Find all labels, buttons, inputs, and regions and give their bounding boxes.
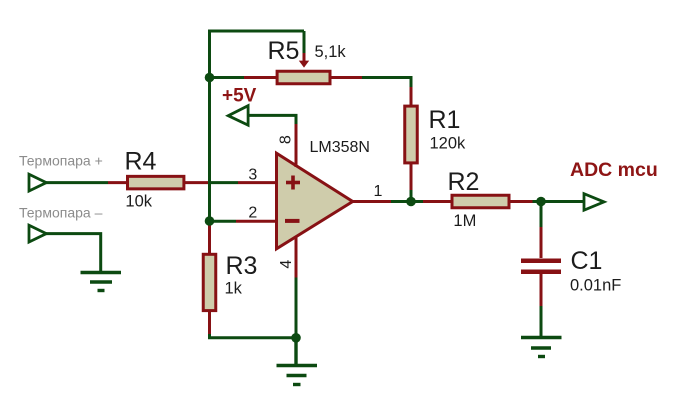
- capacitor C1: [521, 227, 561, 306]
- wire: R4 right lead to crossing: [184, 181, 211, 184]
- svg-text:R1: R1: [429, 106, 461, 134]
- ground (op-amp pin 4): [277, 338, 318, 385]
- wire: pin 2 from junction: [210, 220, 237, 223]
- svg-text:LM358N: LM358N: [310, 139, 370, 156]
- junction: R5 left node: [205, 73, 215, 83]
- wire: R3 bottom to ground net: [210, 334, 297, 338]
- wire: R5 right to R1 top: [362, 78, 411, 88]
- wire: pin 4 to ground node: [295, 278, 298, 338]
- svg-text:Термопара –: Термопара –: [19, 204, 103, 220]
- wire: R4 input wire (terminal to R4): [45, 181, 108, 184]
- wire: R5 left lead (green part): [210, 76, 245, 79]
- wire: R2 to ADC node and terminal: [533, 200, 585, 203]
- wire: +5V arrow to pin 8: [249, 115, 297, 124]
- op-amp U1 LM358N: [277, 153, 353, 249]
- svg-text:ADC mcu: ADC mcu: [570, 159, 658, 181]
- resistor R2: [423, 195, 533, 208]
- svg-text:1k: 1k: [225, 280, 243, 298]
- svg-text:R5: R5: [268, 37, 300, 65]
- pin 1 output stub: [353, 200, 391, 203]
- pin 2 stub: [236, 220, 277, 223]
- svg-text:1M: 1M: [453, 212, 476, 230]
- wire: top feedback wire and left vertical net: [210, 31, 305, 220]
- svg-text:1: 1: [374, 183, 383, 200]
- svg-text:R3: R3: [226, 252, 258, 280]
- svg-text:5,1k: 5,1k: [315, 43, 347, 61]
- svg-text:2: 2: [248, 205, 257, 222]
- junction: ground node: [291, 333, 301, 343]
- junction: R3/pin2 node: [205, 216, 215, 226]
- terminal: Термопара - input: [29, 225, 46, 242]
- svg-text:3: 3: [248, 167, 257, 184]
- wire: C1 bottom to ground: [540, 306, 543, 337]
- terminal: Термопара + input: [29, 174, 46, 191]
- resistor R1: [405, 87, 418, 190]
- power terminal +5V: [228, 106, 248, 126]
- wire: ADC node down to C1: [540, 202, 543, 228]
- svg-text:0.01nF: 0.01nF: [570, 276, 621, 294]
- svg-text:C1: C1: [571, 247, 603, 275]
- svg-text:8: 8: [278, 135, 295, 144]
- svg-text:4: 4: [278, 260, 295, 269]
- wire: Термопара - terminal to ground: [45, 234, 101, 272]
- resistor R4: [108, 176, 184, 189]
- ground (left input): [81, 273, 122, 291]
- svg-text:10k: 10k: [125, 193, 152, 211]
- svg-text:+5V: +5V: [222, 86, 257, 107]
- svg-text:Термопара +: Термопара +: [19, 153, 103, 169]
- junction: output node: [406, 197, 416, 207]
- wire: output node to R2: [391, 200, 423, 203]
- junction: ADC node: [536, 197, 546, 207]
- resistor R3: [203, 221, 216, 334]
- wire: R1 bottom to output node: [410, 189, 413, 203]
- wire: crossing to pin 3: [211, 181, 238, 184]
- pin 8 stub: [295, 124, 298, 167]
- svg-text:R4: R4: [125, 147, 157, 175]
- resistor R5 (potentiometer): [244, 53, 362, 84]
- pin 3 stub: [238, 181, 277, 184]
- svg-text:120k: 120k: [430, 134, 467, 152]
- svg-text:R2: R2: [448, 168, 480, 196]
- terminal: ADC mcu output: [584, 194, 604, 211]
- wire: wiper drop from top wire: [303, 31, 306, 53]
- pin 4 stub: [295, 237, 298, 278]
- ground (C1): [521, 338, 562, 357]
